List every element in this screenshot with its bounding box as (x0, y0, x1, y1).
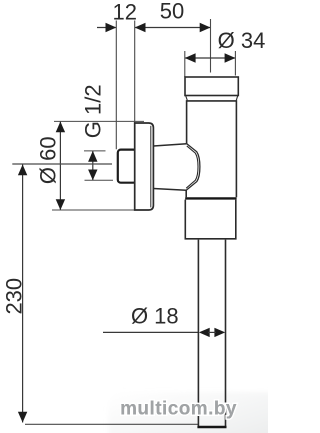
upper pipe outline (187, 101, 237, 197)
svg-text:Ø 18: Ø 18 (131, 304, 179, 329)
leader line D18 (103, 331, 199, 333)
dim D60 vertical with arrows (56, 122, 65, 211)
svg-text:50: 50 (160, 0, 184, 24)
extension line bottom (pipe end) (25, 423, 199, 425)
dim 230 vertical with arrows (18, 165, 27, 423)
wall flange plate (135, 123, 154, 210)
valve body bottom line (153, 189, 186, 191)
svg-text:Ø 60: Ø 60 (36, 136, 61, 184)
dim G1/2 double arrow (88, 151, 97, 180)
dim line D34 with arrows (185, 53, 236, 62)
valve outlet dome outer (186, 144, 200, 191)
extension line D60 bottom (52, 209, 135, 211)
joint line (dark) (185, 197, 236, 199)
extension line D60 top (54, 120, 144, 122)
flange edge inner line (150, 126, 152, 208)
dim line 50 with arrows (135, 23, 211, 32)
extension line G1/2 bottom (85, 179, 114, 181)
dim D18 arrows (199, 328, 225, 337)
svg-text:multicom.by: multicom.by (120, 398, 237, 419)
outlet pipe left edge (197, 240, 199, 427)
upper pipe left lower segment (185, 190, 187, 197)
valve outlet dome inner (186, 146, 198, 188)
push button (118, 150, 137, 183)
extension line pipe axis (210, 19, 212, 73)
extension line flange face (134, 21, 136, 124)
nut groove right slant (236, 96, 238, 101)
outlet pipe bottom edge (197, 426, 226, 428)
dim line 12 outside arrow (97, 23, 116, 32)
extension line button face (115, 21, 117, 150)
pipe top nut (185, 77, 238, 96)
lower valve body (185, 200, 236, 239)
svg-text:Ø 34: Ø 34 (218, 28, 266, 53)
centerline valve axis (12, 163, 112, 165)
extension line D34 right (234, 51, 236, 76)
svg-text:G 1/2: G 1/2 (81, 84, 106, 138)
extension line G1/2 top (84, 150, 106, 152)
nut groove left slant (186, 96, 188, 101)
valve body top line (153, 144, 186, 146)
watermark backdrop (108, 392, 280, 433)
extension line D34 left (184, 51, 186, 77)
outlet pipe right edge (225, 240, 227, 427)
